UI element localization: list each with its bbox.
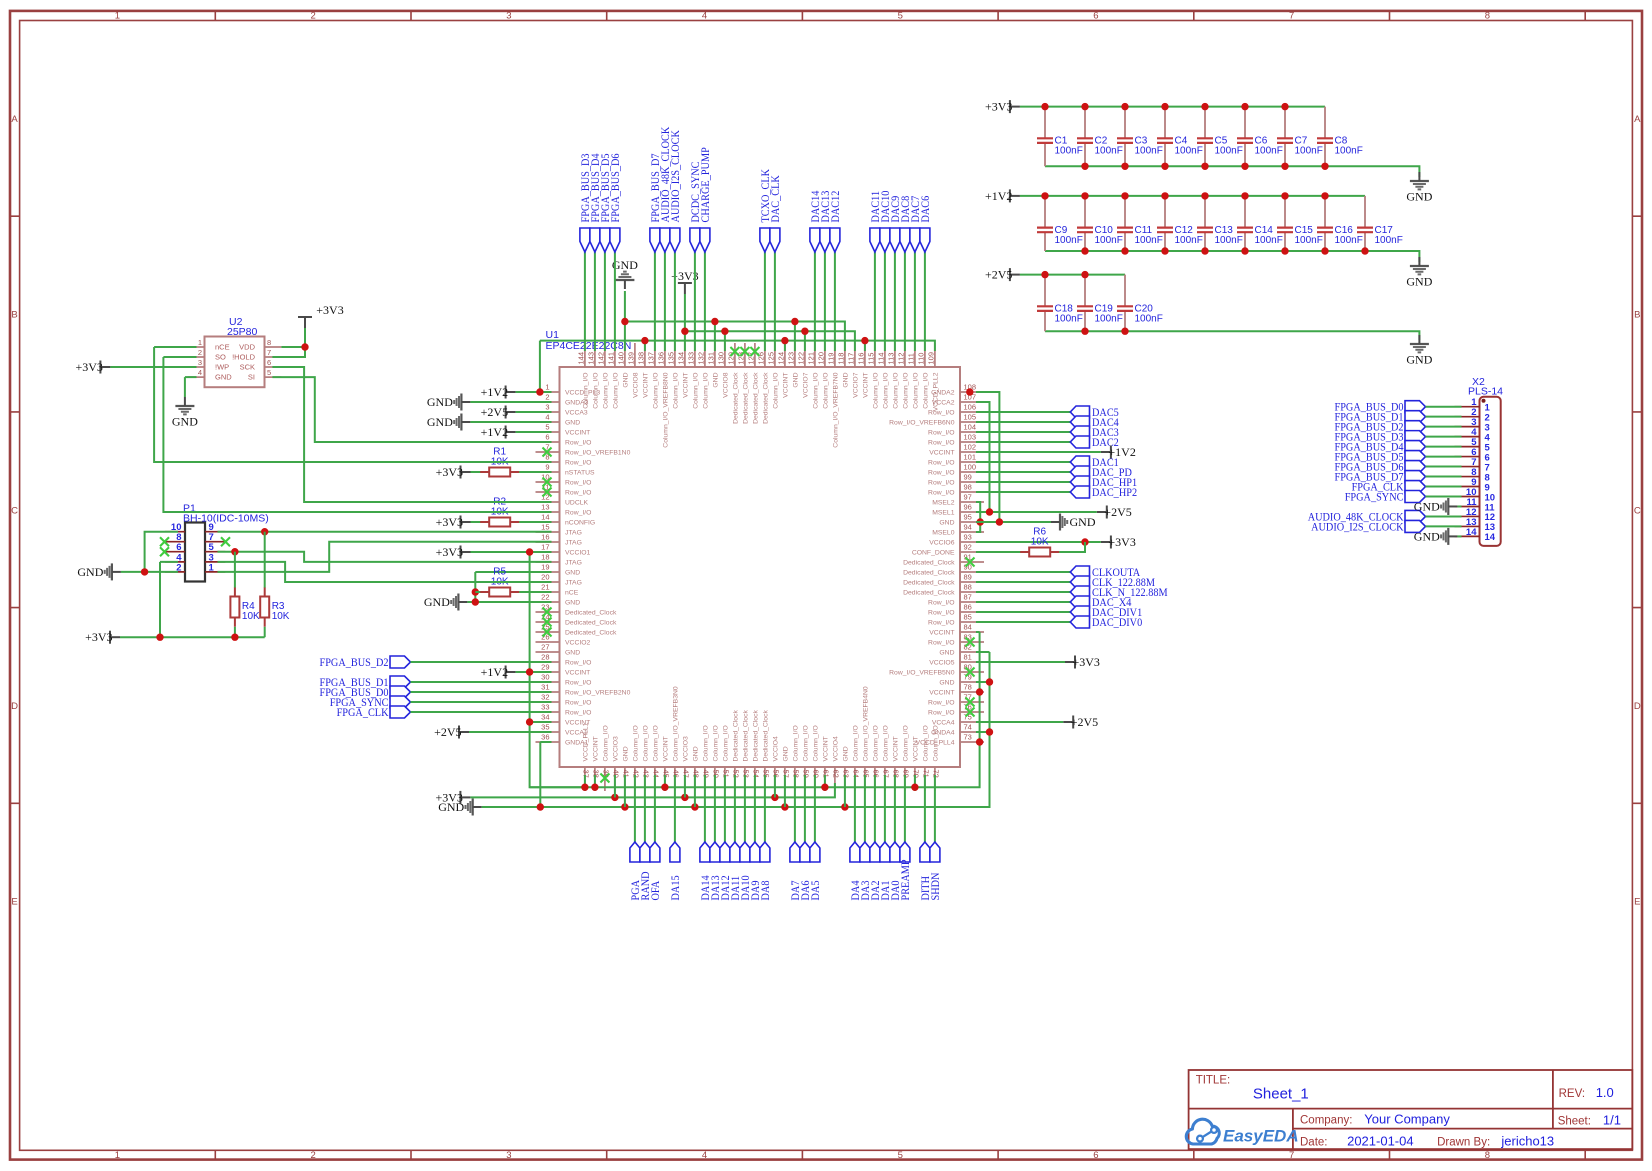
wire [664, 252, 666, 351]
junction [681, 794, 688, 801]
net flag DA9 [748, 842, 762, 901]
U1 pin 7 (Row_I/O_VREFB1N0) [536, 443, 631, 457]
chip U2 25P80 body [205, 337, 265, 388]
U1 pin 116 (VCCINT) [856, 343, 869, 398]
svg-text:A: A [11, 114, 18, 125]
wire VCCD_PLL rail (top C) [540, 341, 935, 351]
svg-text:nCE: nCE [215, 343, 230, 352]
svg-text:VCCIO4: VCCIO4 [833, 736, 840, 762]
U1 pin 125 (Column_I/O) [766, 343, 779, 409]
U1 pin 19 (GND) [536, 563, 581, 577]
svg-text:GND: GND [427, 395, 453, 409]
U2 pin 6 (SCK) [240, 358, 282, 372]
svg-text:GND: GND [843, 372, 850, 387]
junction [1081, 538, 1088, 545]
svg-text:138: 138 [636, 352, 645, 365]
svg-text:PREAMP: PREAMP [898, 859, 912, 900]
junction [801, 328, 808, 335]
svg-text:100nF: 100nF [1135, 146, 1163, 157]
wire [794, 775, 796, 842]
wire +3V3 rail (P1) [120, 636, 265, 638]
wire GND rail (bottom) [482, 652, 990, 807]
junction [536, 388, 543, 395]
U1 pin 24 (Dedicated_Clock) [536, 613, 617, 627]
U1 pin 111 (Column_I/O) [906, 343, 919, 409]
net flag DA7 [788, 842, 802, 901]
wire [976, 471, 1070, 473]
net flag FPGA_BUS_D6 [1335, 460, 1426, 474]
junction [1121, 163, 1128, 170]
svg-text:105: 105 [964, 413, 977, 422]
X2 pin 12 [1455, 507, 1496, 523]
net flag FPGA_BUS_D5 [598, 153, 612, 252]
wire [976, 461, 1070, 463]
title block [1189, 1070, 1633, 1149]
U1 pin 62 (VCCIO4) [832, 736, 841, 791]
junction [1321, 247, 1328, 254]
junction [1161, 103, 1168, 110]
wire +2V5 top rail [1020, 274, 1125, 276]
net flag DAC11 [868, 191, 882, 252]
svg-text:MSEL2: MSEL2 [932, 500, 955, 507]
svg-text:1: 1 [115, 1150, 120, 1161]
U1 pin 44 (Column_I/O) [652, 725, 661, 791]
power flag +3V3 (P1 pulls) [85, 630, 120, 644]
junction [1281, 163, 1288, 170]
svg-text:CONF_DONE: CONF_DONE [912, 550, 955, 557]
svg-text:2: 2 [311, 11, 316, 22]
svg-text:102: 102 [964, 443, 977, 452]
junction [526, 668, 533, 675]
wire [1426, 466, 1462, 468]
U1 pin 107 (VCCA2) [932, 393, 984, 407]
wire [264, 627, 266, 637]
wire [904, 252, 906, 351]
U1 pin 86 (Row_I/O) [928, 603, 984, 617]
svg-text:VCCIO3: VCCIO3 [613, 736, 620, 762]
X2 pin 13 [1455, 517, 1496, 533]
svg-text:GND: GND [843, 746, 850, 761]
junction [1121, 192, 1128, 199]
U1 pin 33 (Row_I/O) [536, 703, 592, 717]
svg-text:100nF: 100nF [1135, 314, 1163, 325]
svg-text:Column_I/O: Column_I/O [723, 725, 730, 761]
net flag FPGA_SYNC [330, 695, 411, 709]
svg-text:73: 73 [964, 733, 972, 742]
junction [1201, 247, 1208, 254]
svg-text:121: 121 [806, 352, 815, 365]
svg-text:116: 116 [856, 353, 865, 365]
svg-text:1: 1 [115, 11, 120, 22]
svg-text:2: 2 [311, 1150, 316, 1161]
wire P1 pin1 to U1 pin 16 [218, 542, 552, 572]
power flag +3V3 (R1) [436, 465, 471, 479]
U1 pin 69 (Column_I/O) [902, 725, 911, 791]
U1 pin 34 (VCCINT) [536, 713, 591, 727]
svg-text:68: 68 [892, 770, 901, 778]
no-connect X (U1 pin 7) [543, 448, 552, 457]
svg-text:96: 96 [964, 503, 972, 512]
svg-text:Column_I/O: Column_I/O [923, 373, 930, 409]
power flag +3V3 (R2) [436, 515, 471, 529]
net flag DAC13 [818, 191, 832, 252]
P1 pin 7 [205, 532, 225, 543]
wire [804, 331, 806, 351]
U1 pin 56 (VCCIO4) [772, 736, 781, 791]
junction [526, 718, 533, 725]
svg-text:Column_I/O: Column_I/O [773, 373, 780, 409]
svg-text:41: 41 [622, 770, 631, 778]
svg-text:GND: GND [783, 746, 790, 761]
wire [1426, 436, 1462, 438]
wire [834, 252, 836, 351]
ground (cap bank 2) [1406, 257, 1432, 289]
P1 pin 1 [205, 562, 225, 573]
wire [704, 252, 706, 351]
U1 pin 93 (VCCIO6) [929, 533, 984, 547]
X2 pin 14 [1455, 527, 1496, 543]
svg-text:Row_I/O: Row_I/O [928, 430, 954, 437]
U1 pin 103 (Row_I/O) [928, 433, 984, 447]
wire [976, 581, 1070, 583]
U1 pin 119 (Column_I/O_VREFB7N0) [826, 343, 839, 448]
U1 pin 85 (Row_I/O) [928, 613, 984, 627]
P1 pin 9 [205, 522, 225, 533]
svg-text:85: 85 [964, 613, 972, 622]
U1 pin 65 (Column_I/O_VREFB4N0) [862, 686, 871, 791]
wire [976, 681, 990, 683]
U1 pin 9 (nSTATUS) [536, 463, 596, 477]
U2 pin 5 (SI) [248, 368, 281, 382]
wire [684, 775, 686, 797]
U1 pin 133 (Column_I/O) [686, 343, 699, 409]
svg-text:86: 86 [964, 603, 972, 612]
svg-text:Column_I/O: Column_I/O [793, 725, 800, 761]
svg-text:143: 143 [586, 352, 595, 365]
wire [976, 411, 1070, 413]
svg-text:+2V5: +2V5 [481, 405, 508, 419]
no-connect X (U1 pin 24) [543, 618, 552, 627]
power flag +3V3 (U1 pin 81) [1065, 655, 1100, 669]
svg-text:132: 132 [696, 352, 705, 365]
wire [516, 391, 552, 393]
U1 pin 21 (nCE) [536, 583, 579, 597]
net flag DAC_DIV0 [1070, 615, 1142, 629]
svg-text:+3V3: +3V3 [436, 515, 463, 529]
junction [1121, 328, 1128, 335]
svg-text:49: 49 [702, 770, 711, 778]
capacitor C1 100nF [1037, 107, 1083, 167]
svg-text:+3V3: +3V3 [316, 303, 343, 317]
svg-text:CHARGE_PUMP: CHARGE_PUMP [698, 147, 712, 223]
net flag DAC12 [828, 191, 842, 252]
U1 pin 28 (Row_I/O) [536, 653, 592, 667]
wire [272, 328, 305, 357]
U1 pin 129 (Dedicated_Clock) [726, 343, 739, 424]
svg-text:B: B [11, 310, 17, 321]
U1 pin 64 (Column_I/O) [852, 725, 861, 791]
svg-text:Row_I/O_VREFB6N0: Row_I/O_VREFB6N0 [889, 420, 955, 427]
svg-text:VCCINT: VCCINT [929, 450, 954, 457]
svg-text:nCE: nCE [565, 590, 579, 597]
svg-text:+3V3: +3V3 [75, 360, 102, 374]
junction [537, 803, 544, 810]
wire [644, 341, 646, 351]
no-connect X (U1 pin 80) [966, 668, 975, 677]
net flag DA5 [808, 842, 822, 901]
capacitor C5 100nF [1197, 107, 1243, 167]
wire [470, 421, 551, 423]
svg-text:Column_I/O: Column_I/O [873, 373, 880, 409]
junction [1081, 163, 1088, 170]
junction [621, 803, 628, 810]
svg-text:Column_I/O: Column_I/O [603, 373, 610, 409]
svg-text:100nF: 100nF [1295, 146, 1323, 157]
U1 pin 136 (Column_I/O_VREFB8N0) [656, 343, 669, 448]
power flag +3V3 (U1 pin 17) [436, 545, 471, 559]
U1 pin 101 (Row_I/O) [928, 453, 984, 467]
U1 pin 105 (Row_I/O_VREFB6N0) [889, 413, 984, 427]
svg-text:GND: GND [939, 520, 954, 527]
svg-text:120: 120 [816, 352, 825, 365]
U1 pin 90 (Dedicated_Clock) [903, 563, 984, 577]
svg-text:5: 5 [545, 423, 549, 432]
wire [694, 252, 696, 351]
U1 pin 75 (VCCA4) [932, 713, 984, 727]
junction [1281, 247, 1288, 254]
svg-text:DA5: DA5 [808, 880, 822, 900]
svg-text:VCCINT: VCCINT [663, 736, 670, 761]
P1 pin 5 [205, 542, 225, 553]
svg-text:TITLE:: TITLE: [1196, 1074, 1231, 1086]
svg-text:DAC_HP2: DAC_HP2 [1092, 485, 1137, 499]
wire [824, 252, 826, 351]
svg-text:15: 15 [541, 523, 549, 532]
wire [764, 775, 766, 842]
U1 pin 88 (Dedicated_Clock) [903, 583, 984, 597]
net flag DAC_HP1 [1070, 475, 1137, 489]
svg-text:8: 8 [1485, 1150, 1490, 1161]
svg-text:VCCINT: VCCINT [929, 630, 954, 637]
junction [1081, 103, 1088, 110]
wire [794, 322, 796, 352]
svg-text:Column_I/O: Column_I/O [933, 725, 940, 761]
junction [1201, 103, 1208, 110]
wire [644, 775, 646, 842]
U1 pin 39 (Column_I/O) [602, 725, 611, 791]
svg-text:E: E [11, 897, 17, 908]
svg-text:VCCIO3: VCCIO3 [683, 736, 690, 762]
svg-text:100nF: 100nF [1255, 146, 1283, 157]
junction [1241, 103, 1248, 110]
X2 pin 2 [1455, 407, 1490, 423]
wire [914, 252, 916, 351]
svg-text:Column_I/O: Column_I/O [813, 373, 820, 409]
junction [781, 803, 788, 810]
svg-text:100nF: 100nF [1095, 146, 1123, 157]
svg-text:Row_I/O: Row_I/O [928, 600, 954, 607]
U1 pin 26 (VCCIO2) [536, 633, 591, 647]
junction [1241, 192, 1248, 199]
wire gnd bottom rail C9-C17 [1045, 251, 1419, 262]
svg-text:89: 89 [964, 573, 972, 582]
U1 pin 135 (Column_I/O) [666, 343, 679, 409]
svg-text:Column_I/O: Column_I/O [813, 725, 820, 761]
U1 pin 109 (VCCD_PLL2) [926, 343, 939, 411]
svg-text:1/1: 1/1 [1603, 1113, 1621, 1128]
U1 pin 49 (Column_I/O) [702, 725, 711, 791]
junction [641, 337, 648, 344]
svg-text:Row_I/O: Row_I/O [565, 660, 591, 667]
svg-text:141: 141 [606, 352, 615, 365]
svg-text:Column_I/O: Column_I/O [893, 373, 900, 409]
junction [1081, 192, 1088, 199]
X2 pin 4 [1455, 427, 1491, 443]
svg-text:Column_I/O: Column_I/O [643, 725, 650, 761]
net flag DA13 [708, 842, 722, 901]
U1 pin 68 (VCCINT) [892, 736, 901, 791]
U1 pin 31 (Row_I/O_VREFB2N0) [536, 683, 631, 697]
svg-text:Dedicated_Clock: Dedicated_Clock [565, 620, 617, 627]
svg-text:Column_I/O: Column_I/O [653, 725, 660, 761]
svg-text:GND: GND [427, 415, 453, 429]
U1 pin 71 (Column_I/O) [922, 725, 931, 791]
svg-text:+2V5: +2V5 [1071, 715, 1098, 729]
svg-text:DAC_DIV0: DAC_DIV0 [1092, 615, 1142, 629]
wire VCCINT vertical [530, 552, 585, 787]
X2 pin 5 [1455, 437, 1491, 453]
svg-text:40: 40 [612, 770, 621, 778]
svg-text:19: 19 [541, 563, 549, 572]
svg-text:Row_I/O: Row_I/O [928, 480, 954, 487]
svg-text:VCCA3: VCCA3 [565, 410, 588, 417]
svg-text:VCCIO2: VCCIO2 [565, 640, 591, 647]
wire [976, 721, 1063, 723]
svg-text:B: B [1634, 310, 1640, 321]
ground (U2) [172, 397, 198, 429]
no-connect X (P1 pin 7) [221, 537, 230, 546]
svg-text:VCCINT: VCCINT [593, 736, 600, 761]
U1 pin 70 (VCCINT) [912, 736, 921, 791]
svg-text:Column_I/O: Column_I/O [693, 373, 700, 409]
junction [986, 508, 993, 515]
svg-text:25P80: 25P80 [227, 326, 258, 338]
wire [704, 775, 706, 842]
junction [1121, 103, 1128, 110]
svg-text:103: 103 [964, 433, 977, 442]
net flag RAND [638, 842, 652, 901]
svg-text:FPGA_BUS_D2: FPGA_BUS_D2 [320, 655, 389, 669]
U2 pin 2 (SO) [188, 348, 226, 362]
svg-text:Column_I/O: Column_I/O [673, 373, 680, 409]
net flag DAC_DIV1 [1070, 605, 1142, 619]
wire gnd bottom rail C1-C8 [1045, 166, 1419, 177]
svg-text:36: 36 [541, 733, 549, 742]
svg-text:VCCINT: VCCINT [823, 736, 830, 761]
net flag DA2 [868, 842, 882, 901]
U1 pin 91 (Dedicated_Clock) [903, 553, 984, 567]
power flag +3V3 (U2 pin 3) [75, 360, 110, 374]
wire P1 pin3 to U1 pin 20 [218, 562, 552, 582]
capacitor C13 100nF [1197, 196, 1243, 251]
svg-text:VCCINT: VCCINT [913, 736, 920, 761]
wire [674, 775, 676, 842]
svg-text:4: 4 [545, 413, 549, 422]
wire [976, 441, 1070, 443]
X2 pin 3 [1455, 417, 1490, 433]
svg-text:AUDIO_I2S_CLOCK: AUDIO_I2S_CLOCK [668, 130, 682, 223]
net flag PGA [628, 842, 642, 901]
wire [976, 491, 1070, 493]
wire [976, 621, 1070, 623]
junction [1041, 271, 1048, 278]
junction [231, 548, 238, 555]
wire [184, 377, 186, 397]
svg-text:Dedicated_Clock: Dedicated_Clock [733, 710, 740, 762]
svg-text:GND: GND [793, 372, 800, 387]
svg-text:Row_I/O: Row_I/O [565, 440, 591, 447]
power flag +3V3 (cap bank 1) [985, 100, 1020, 114]
wire [976, 431, 1070, 433]
U1 pin 76 (Row_I/O) [928, 703, 984, 717]
U1 pin 122 (VCCIO7) [796, 343, 809, 398]
svg-text:VCCIO7: VCCIO7 [853, 372, 860, 398]
svg-text:jericho13: jericho13 [1500, 1133, 1554, 1148]
wire [674, 252, 676, 351]
wire [624, 775, 626, 807]
wire [474, 572, 476, 602]
svg-text:7: 7 [267, 348, 271, 357]
svg-text:GND: GND [565, 420, 580, 427]
svg-text:Column_I/O_VREFB8N0: Column_I/O_VREFB8N0 [663, 372, 670, 447]
svg-text:100nF: 100nF [1055, 235, 1083, 246]
svg-text:Row_I/O: Row_I/O [565, 480, 591, 487]
svg-text:78: 78 [964, 683, 972, 692]
wire [471, 521, 481, 523]
svg-text:8: 8 [267, 338, 271, 347]
svg-text:1: 1 [545, 383, 549, 392]
svg-text:117: 117 [846, 353, 855, 365]
X2 pin 9 [1455, 477, 1490, 493]
U1 pin 117 (VCCIO7) [846, 343, 859, 398]
svg-text:Dedicated_Clock: Dedicated_Clock [903, 590, 955, 597]
U1 pin 134 (VCCINT) [676, 343, 689, 398]
svg-text:9: 9 [545, 463, 549, 472]
wire [864, 341, 866, 351]
U1 pin 84 (VCCINT) [929, 623, 984, 637]
U1 pin 18 (JTAG) [536, 553, 582, 567]
U1 pin 3 (VCCA3) [536, 403, 588, 417]
U1 pin 95 (GND) [939, 513, 984, 527]
U1 pin 57 (GND) [782, 746, 791, 791]
power flag +1V2 (U1 pin 102) [1101, 445, 1136, 459]
svg-text:Sheet_1: Sheet_1 [1253, 1085, 1309, 1102]
svg-text:123: 123 [786, 352, 795, 365]
wire [934, 775, 936, 842]
svg-text:VCCINT: VCCINT [643, 373, 650, 398]
svg-text:VCCINT: VCCINT [565, 670, 590, 677]
junction [581, 784, 588, 791]
net flag DA11 [728, 842, 742, 901]
U2 pin 3 (!WP) [188, 358, 230, 372]
U1 pin 20 (JTAG) [536, 573, 582, 587]
net flag DAC3 [1070, 425, 1119, 439]
U1 pin 25 (Dedicated_Clock) [536, 623, 617, 637]
svg-text:VCCIO8: VCCIO8 [723, 372, 730, 398]
capacitor C3 100nF [1117, 107, 1163, 167]
junction [1321, 163, 1328, 170]
wire [744, 775, 746, 842]
